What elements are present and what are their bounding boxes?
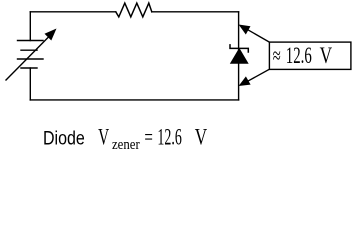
wire left vertical lower: [29, 68, 31, 100]
svg-text:V: V: [320, 43, 333, 68]
svg-text:12.6: 12.6: [286, 43, 312, 68]
wire left vertical upper: [29, 12, 31, 41]
zener diode D1 cathode bar: [230, 45, 248, 52]
svg-text:V: V: [195, 125, 208, 150]
svg-text:Diode: Diode: [43, 128, 85, 150]
svg-text:≈: ≈: [273, 43, 281, 68]
battery B1 plate long top: [18, 40, 44, 42]
battery B1 plate long: [18, 58, 44, 60]
battery B1 plate short bottom: [21, 67, 37, 69]
svg-text:zener: zener: [112, 137, 140, 153]
wire bottom: [30, 99, 238, 101]
svg-text:=: =: [144, 125, 153, 150]
svg-text:V: V: [98, 125, 109, 150]
pointer arrow lower (box to bottom of diode): [239, 69, 270, 86]
pointer arrow upper (box to top of diode): [239, 25, 270, 43]
value label text: [273, 43, 333, 68]
zener diode D1 anode triangle: [231, 49, 248, 64]
wire right vertical: [238, 12, 240, 100]
wire top-right segment: [152, 11, 239, 13]
caption: Diode Vzener = 12.6 V: [43, 125, 208, 153]
svg-text:12.6: 12.6: [157, 125, 181, 150]
battery variable arrow: [6, 29, 57, 81]
resistor R1: [116, 3, 152, 17]
wire top-left segment: [30, 11, 116, 13]
battery B1 plate short: [21, 49, 37, 51]
value label box: [269, 42, 351, 69]
